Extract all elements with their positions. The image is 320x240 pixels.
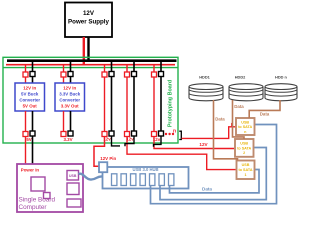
wire tap 1 black drop: [32, 61, 34, 72]
connector J1 red: [23, 72, 28, 77]
wire tap 3 red drop: [104, 65, 106, 72]
connector P3 red 12V: [102, 132, 107, 137]
connector J5 black: [159, 72, 164, 77]
connector J3 black: [109, 72, 114, 77]
red bus wire: [6, 64, 175, 66]
svg-text:USB: USB: [241, 120, 249, 124]
svg-text:Converter: Converter: [59, 98, 80, 103]
wire tap 4 black drop: [133, 61, 135, 72]
usb-sata adapter 1: [237, 161, 255, 180]
connector J1 black: [30, 72, 35, 77]
svg-text:HDD2: HDD2: [235, 74, 246, 79]
hub port 3: [131, 174, 136, 186]
svg-text:Converter: Converter: [19, 98, 40, 103]
hub port 6: [159, 174, 164, 186]
svg-text:5V Out: 5V Out: [23, 104, 38, 109]
wire buck2 red output: [63, 111, 65, 132]
wire tap5 black stub: [154, 136, 162, 147]
connector J3 red: [102, 72, 107, 77]
svg-text:USB 3.0 HUB: USB 3.0 HUB: [132, 167, 158, 172]
svg-text:USB: USB: [240, 142, 248, 146]
svg-text:12V In: 12V In: [23, 86, 36, 91]
svg-text:Power In: Power In: [21, 167, 40, 172]
usb-sata adapter n: [236, 118, 255, 135]
svg-text:1: 1: [244, 173, 246, 177]
svg-text:12V: 12V: [83, 10, 95, 17]
wire 5V red to SBC: [25, 137, 27, 165]
svg-text:HDD1: HDD1: [199, 74, 210, 79]
buck converter U1 5V: [15, 83, 45, 111]
svg-text:Data: Data: [234, 104, 244, 109]
svg-text:12V In: 12V In: [63, 86, 76, 91]
wire buck1 black output: [32, 111, 34, 131]
data wire HDDn to USB-SATA n: [249, 100, 280, 118]
wire tap3 black run: [111, 77, 113, 132]
connector P5 black: [159, 131, 164, 136]
svg-text:to SATA: to SATA: [238, 125, 252, 129]
svg-text:3.3V: 3.3V: [63, 137, 72, 142]
prototyping board outline: [3, 57, 178, 143]
svg-text:5V: 5V: [26, 137, 31, 142]
wire buck2 red input: [63, 77, 65, 83]
wire tap4 red to USB-SATA 1: [127, 137, 236, 170]
hub port 1: [112, 174, 117, 186]
wire buck2 black input: [70, 77, 72, 84]
usb cable port7 to USB-SATA 1: [170, 170, 260, 193]
ellipsis dots more taps: [165, 133, 167, 135]
power supply PS1: [65, 3, 112, 38]
HDD1: [189, 74, 223, 100]
hub port 4: [140, 174, 145, 186]
wire 5V black to SBC: [32, 136, 34, 164]
board inner rail line: [3, 67, 178, 69]
connector P2 red 3.3V: [61, 132, 66, 137]
wire tap4 red run: [126, 77, 128, 132]
svg-text:Single Board: Single Board: [19, 197, 56, 204]
HDD n: [265, 74, 297, 100]
wire tap 5 black drop: [160, 61, 162, 72]
connector P5 red 12V: [152, 132, 157, 137]
svg-text:2: 2: [243, 151, 245, 155]
svg-text:HDD n: HDD n: [275, 74, 288, 79]
wire tap3 black stub: [112, 136, 121, 146]
svg-text:12V Pin: 12V Pin: [100, 156, 116, 161]
wire tap3 red run: [104, 77, 106, 132]
wire tap4 black run: [133, 77, 135, 132]
svg-text:Data: Data: [260, 112, 270, 117]
wire tap3 red to hub 12V pin: [94, 137, 105, 167]
wire tap5 red to USB-SATA 2: [154, 137, 234, 149]
HDD2: [229, 74, 263, 100]
hub port 7: [169, 174, 174, 186]
USB 3.0 hub: [103, 167, 189, 189]
data wire HDD2 to USB-SATA 2: [233, 100, 245, 139]
svg-text:n: n: [173, 129, 176, 135]
USB cable SBC to hub: [79, 174, 103, 180]
wire tap 2 red drop: [63, 65, 65, 72]
svg-text:Data: Data: [202, 186, 212, 191]
wire tap 5 red drop: [153, 65, 155, 72]
single board computer: [17, 164, 83, 212]
bracket: [179, 131, 181, 139]
data wire HDD1 to USB-SATA 1: [214, 100, 238, 161]
red tick: [231, 123, 233, 127]
svg-text:Data: Data: [215, 116, 225, 121]
usb cable port5 to USB-SATA n: [151, 125, 277, 204]
usb cable port6 to USB-SATA 2: [160, 148, 266, 200]
svg-text:Prototyping Board: Prototyping Board: [168, 80, 174, 127]
svg-text:to SATA: to SATA: [239, 168, 253, 172]
wire buck1 black input: [32, 77, 34, 84]
connector P2 black: [68, 131, 73, 136]
connector P4 black: [132, 131, 137, 136]
connector P4 red 12V: [125, 132, 130, 137]
svg-text:to SATA: to SATA: [237, 146, 251, 150]
wire tap 2 black drop: [70, 61, 72, 72]
svg-text:USB: USB: [69, 174, 77, 178]
hub port 5: [150, 174, 155, 186]
svg-text:3.3V Buck: 3.3V Buck: [59, 92, 81, 97]
wire tap4 black stub: [125, 136, 134, 146]
connector J4 red: [125, 72, 130, 77]
wire tap 4 red drop: [126, 65, 128, 72]
svg-text:USB: USB: [242, 163, 250, 167]
connector J4 black: [132, 72, 137, 77]
connector P1 black: [30, 131, 35, 136]
svg-text:12V: 12V: [199, 142, 208, 147]
wire bracket red to USB-SATA n: [182, 127, 236, 139]
connector P1 red 5V: [23, 132, 28, 137]
wire tap5 red run: [153, 77, 155, 132]
wire buck1 red output: [25, 111, 27, 132]
connector J2 red: [61, 72, 66, 77]
svg-text:Power Supply: Power Supply: [68, 18, 109, 25]
wire tap 3 black drop: [111, 61, 113, 72]
wire PSU red lead: [83, 37, 85, 65]
wire buck1 red input: [25, 77, 27, 83]
connector J2 black: [68, 72, 73, 77]
svg-text:5V Buck: 5V Buck: [21, 92, 39, 97]
hub port 2: [121, 174, 126, 186]
wire buck2 black output: [70, 111, 72, 131]
buck converter U2 3.3V: [55, 83, 85, 111]
svg-text:3.3V Out: 3.3V Out: [61, 104, 79, 109]
usb-sata adapter 2: [235, 139, 254, 157]
wire tap 1 red drop: [25, 65, 27, 72]
connector P3 black: [109, 131, 114, 136]
hub 12V connector: [99, 162, 107, 172]
connector J5 red: [152, 72, 157, 77]
black bus wire: [7, 59, 177, 62]
wire PSU black lead: [87, 37, 89, 62]
wire tap5 black run: [160, 77, 162, 132]
svg-text:Computer: Computer: [19, 204, 48, 211]
